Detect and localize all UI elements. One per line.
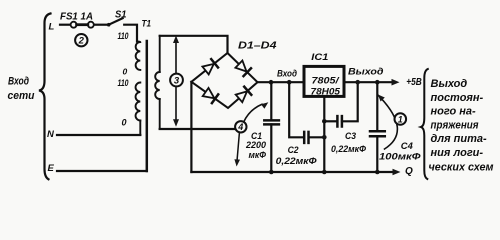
svg-text:T1: T1 bbox=[142, 19, 152, 30]
svg-text:Q: Q bbox=[405, 166, 413, 177]
junction C3 gnd bbox=[322, 119, 327, 124]
svg-text:0,22мкФ: 0,22мкФ bbox=[276, 156, 317, 166]
svg-text:2: 2 bbox=[78, 36, 85, 47]
switch S1 bbox=[107, 18, 123, 26]
svg-text:2200: 2200 bbox=[245, 140, 266, 150]
svg-text:100мкФ: 100мкФ bbox=[379, 151, 421, 161]
capacitor C2 bbox=[289, 82, 324, 143]
capacitor C1 bbox=[264, 82, 279, 172]
wire regulator ground bbox=[323, 96, 325, 172]
svg-text:S1: S1 bbox=[115, 9, 127, 20]
wire switch to primary bbox=[124, 25, 137, 42]
IC1 regulator box bbox=[304, 66, 344, 96]
svg-text:E: E bbox=[48, 163, 55, 174]
wire E bbox=[57, 170, 147, 172]
callout 4 bbox=[234, 102, 268, 166]
svg-text:L: L bbox=[49, 22, 55, 33]
diode D1 top-left bbox=[202, 59, 218, 74]
wire secondary bottom bbox=[160, 128, 235, 130]
callout 3 bbox=[170, 36, 183, 127]
diode D4 bottom-right bbox=[236, 87, 252, 103]
transformer T1 primary winding bbox=[136, 42, 141, 70]
callout 2 bbox=[75, 34, 87, 47]
junction gnd rail bbox=[322, 170, 327, 175]
svg-text:C4: C4 bbox=[401, 141, 413, 151]
svg-text:Выход: Выход bbox=[348, 67, 384, 77]
svg-text:ческих схем: ческих схем bbox=[429, 161, 494, 173]
junction C4 rail bbox=[375, 170, 380, 175]
input terminals brace bbox=[39, 14, 51, 180]
svg-text:Вход: Вход bbox=[277, 69, 297, 79]
wire DC plus rail bbox=[258, 81, 305, 83]
diode bridge D1-D4 arms bbox=[191, 53, 257, 108]
svg-text:110: 110 bbox=[118, 31, 130, 42]
fuse FS1 bbox=[71, 22, 94, 28]
svg-text:1: 1 bbox=[398, 115, 403, 125]
svg-text:D1–D4: D1–D4 bbox=[238, 40, 277, 51]
svg-text:для пита-: для пита- bbox=[431, 133, 488, 145]
svg-text:+5В: +5В bbox=[406, 76, 422, 88]
svg-text:C2: C2 bbox=[288, 145, 299, 155]
svg-text:пряжения: пряжения bbox=[431, 119, 479, 131]
capacitor C3 bbox=[324, 82, 357, 126]
svg-text:7805/: 7805/ bbox=[312, 75, 341, 86]
diode D2 top-right bbox=[235, 61, 251, 77]
label output description bbox=[429, 78, 494, 173]
svg-text:C3: C3 bbox=[345, 131, 356, 141]
wire output rail bbox=[344, 81, 392, 83]
callout 1 bbox=[378, 95, 406, 150]
svg-text:0: 0 bbox=[123, 67, 128, 77]
svg-text:Выход: Выход bbox=[431, 78, 468, 90]
wire L bbox=[60, 24, 70, 26]
junction C1 rail bbox=[269, 170, 274, 175]
transformer secondary winding bbox=[159, 36, 161, 72]
transformer core bbox=[146, 41, 149, 171]
junction C3 out bbox=[355, 80, 360, 85]
svg-text:78Н05: 78Н05 bbox=[311, 87, 341, 98]
junction C4 out bbox=[375, 80, 380, 85]
svg-text:0,22мкФ: 0,22мкФ bbox=[331, 144, 366, 154]
svg-text:3: 3 bbox=[174, 76, 180, 87]
svg-text:мкФ: мкФ bbox=[249, 150, 267, 160]
svg-text:Вход: Вход bbox=[8, 76, 29, 88]
svg-text:ния логи-: ния логи- bbox=[431, 147, 484, 159]
capacitor C4 bbox=[370, 82, 385, 172]
junction C1 bbox=[269, 80, 274, 85]
svg-text:4: 4 bbox=[237, 122, 243, 132]
svg-text:110: 110 bbox=[118, 78, 130, 89]
output brace bbox=[421, 69, 428, 179]
svg-text:N: N bbox=[47, 129, 55, 140]
junction C2 gnd bbox=[322, 135, 327, 140]
wire DC minus bbox=[190, 82, 192, 172]
svg-text:постоян-: постоян- bbox=[431, 92, 484, 104]
junction C2 bbox=[287, 80, 292, 85]
wire N bbox=[57, 134, 140, 136]
svg-text:FS1 1A: FS1 1A bbox=[60, 10, 93, 22]
wire 0V bottom rail bbox=[191, 171, 394, 173]
svg-text:IC1: IC1 bbox=[311, 52, 328, 63]
wire secondary top rail bbox=[160, 36, 228, 53]
diode D3 bottom-left bbox=[203, 88, 219, 103]
svg-text:ного на-: ного на- bbox=[431, 106, 476, 118]
svg-text:сети: сети bbox=[8, 90, 35, 102]
label Вход сети bbox=[8, 76, 35, 103]
svg-text:0: 0 bbox=[122, 118, 127, 128]
